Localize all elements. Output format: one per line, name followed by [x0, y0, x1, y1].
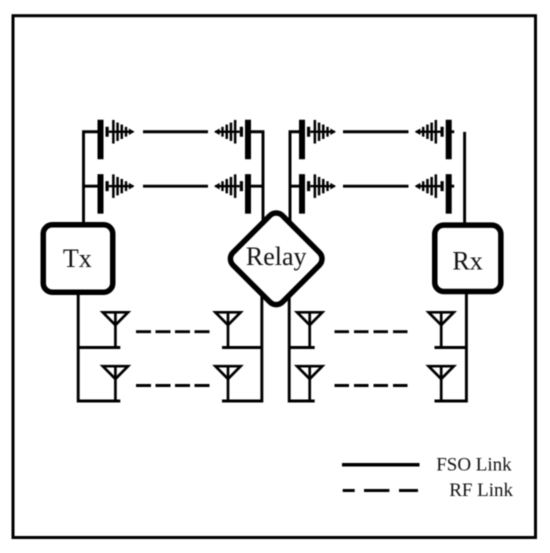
svg-text:FSO Link: FSO Link [436, 455, 512, 476]
svg-text:Tx: Tx [63, 244, 92, 273]
svg-text:Relay: Relay [246, 242, 307, 271]
svg-text:Rx: Rx [452, 246, 482, 275]
svg-text:RF Link: RF Link [449, 480, 513, 501]
